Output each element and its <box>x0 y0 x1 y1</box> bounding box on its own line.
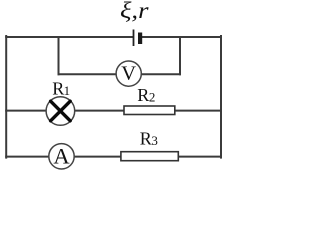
svg-text:R: R <box>137 85 149 105</box>
svg-text:V: V <box>121 63 136 85</box>
svg-text:A: A <box>53 143 70 168</box>
svg-text:2: 2 <box>149 90 156 105</box>
svg-text:R: R <box>140 128 152 148</box>
svg-text:ξ,r: ξ,r <box>120 0 149 24</box>
svg-text:3: 3 <box>151 133 158 148</box>
svg-text:R: R <box>52 79 64 99</box>
svg-text:1: 1 <box>64 83 71 98</box>
